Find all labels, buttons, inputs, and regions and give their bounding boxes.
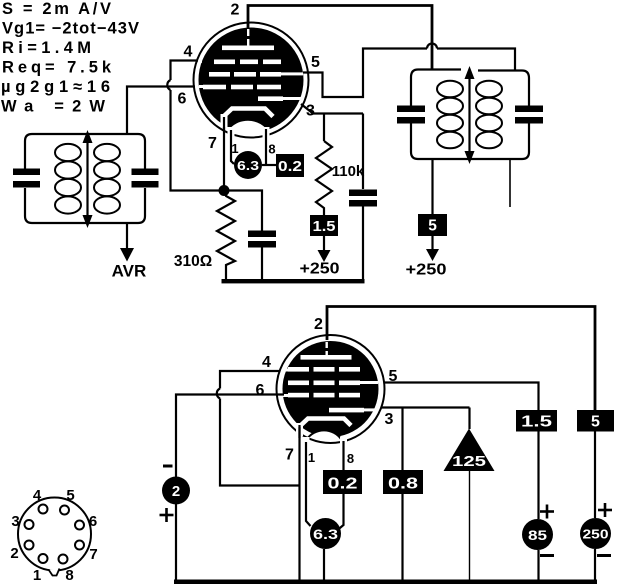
svg-text:0.2: 0.2 — [278, 158, 302, 175]
svg-text:Vg1= −2tot−43V: Vg1= −2tot−43V — [2, 20, 139, 38]
svg-text:1.5: 1.5 — [313, 218, 336, 235]
svg-text:8: 8 — [268, 142, 275, 157]
svg-text:+250: +250 — [300, 261, 340, 278]
svg-text:4: 4 — [184, 44, 193, 61]
svg-text:5: 5 — [428, 218, 437, 235]
svg-text:6: 6 — [256, 382, 265, 399]
svg-text:S = 2m A/V: S = 2m A/V — [2, 0, 111, 18]
svg-text:6: 6 — [89, 513, 97, 530]
svg-text:6.3: 6.3 — [313, 526, 338, 542]
svg-text:5: 5 — [66, 487, 74, 504]
svg-text:0.8: 0.8 — [388, 476, 418, 493]
svg-text:7: 7 — [89, 546, 97, 563]
svg-text:AVR: AVR — [112, 262, 147, 281]
svg-text:7: 7 — [208, 135, 217, 152]
svg-text:3: 3 — [11, 513, 19, 530]
svg-text:310Ω: 310Ω — [174, 253, 212, 270]
svg-text:1: 1 — [33, 567, 41, 584]
svg-text:110k: 110k — [332, 163, 365, 180]
svg-text:250: 250 — [583, 528, 609, 542]
svg-text:4: 4 — [262, 354, 271, 371]
svg-text:125: 125 — [452, 453, 486, 470]
svg-text:5: 5 — [311, 54, 320, 71]
svg-text:1: 1 — [308, 450, 315, 465]
svg-text:5: 5 — [591, 414, 600, 431]
svg-text:3: 3 — [385, 411, 394, 428]
svg-text:2: 2 — [314, 316, 323, 333]
svg-text:2: 2 — [172, 483, 180, 500]
svg-text:1.5: 1.5 — [521, 414, 552, 431]
svg-text:8: 8 — [65, 567, 73, 584]
svg-text:0.2: 0.2 — [328, 476, 358, 493]
svg-text:5: 5 — [389, 368, 398, 385]
svg-text:2: 2 — [10, 545, 18, 562]
svg-text:6.3: 6.3 — [237, 158, 259, 173]
svg-text:6: 6 — [178, 91, 187, 108]
svg-text:+250: +250 — [406, 262, 447, 279]
svg-text:2: 2 — [231, 2, 240, 19]
svg-text:1: 1 — [231, 141, 238, 156]
svg-text:3: 3 — [306, 103, 315, 120]
svg-text:4: 4 — [33, 487, 42, 504]
svg-text:85: 85 — [528, 527, 547, 543]
svg-text:8: 8 — [347, 451, 354, 466]
svg-text:7: 7 — [285, 447, 294, 464]
